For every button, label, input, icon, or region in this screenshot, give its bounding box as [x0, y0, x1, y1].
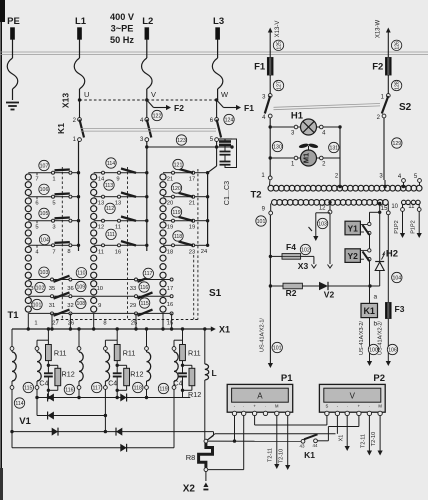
- dashed node line U-V-W: [80, 99, 217, 101]
- ammeter P1: [227, 384, 293, 412]
- node V: [145, 98, 148, 101]
- resistor R2: [269, 284, 272, 287]
- svg-text:106: 106: [40, 187, 49, 193]
- diode V1-5: [116, 428, 122, 436]
- svg-text:110: 110: [77, 271, 85, 277]
- svg-text:V: V: [151, 90, 156, 99]
- svg-text:27: 27: [52, 321, 58, 327]
- connector X3: [301, 255, 314, 257]
- svg-text:3: 3: [52, 225, 55, 231]
- svg-text:C4: C4: [174, 381, 183, 388]
- valve connector Y2: [345, 249, 360, 263]
- svg-text:F2: F2: [372, 62, 383, 73]
- svg-text:104: 104: [40, 237, 49, 243]
- svg-text:Y2: Y2: [347, 251, 358, 261]
- fuse F4: [269, 255, 272, 258]
- wire from T2-12 to X3: [329, 214, 331, 264]
- svg-text:101: 101: [257, 219, 266, 225]
- svg-text:12: 12: [98, 225, 104, 231]
- X1 output bus: [12, 328, 211, 330]
- svg-text:112: 112: [106, 206, 114, 212]
- selector S1 dashed mechanical links: [61, 167, 63, 320]
- svg-text:115: 115: [24, 385, 32, 391]
- K1 auxiliary contact: [301, 439, 305, 443]
- svg-text:31: 31: [49, 303, 55, 309]
- svg-text:F1: F1: [244, 103, 254, 113]
- svg-text:111: 111: [107, 232, 115, 238]
- svg-text:X13-V: X13-V: [275, 21, 281, 38]
- secondary winding w4: [104, 340, 106, 346]
- svg-text:X1: X1: [339, 435, 345, 442]
- svg-text:16: 16: [167, 302, 173, 308]
- svg-text:120: 120: [172, 186, 181, 192]
- svg-text:106: 106: [388, 347, 397, 353]
- T2 terminal 9: [270, 204, 272, 212]
- K1 output buses: [78, 142, 80, 252]
- T2 terminals 10 11: [402, 204, 404, 208]
- svg-text:108: 108: [76, 301, 85, 307]
- snubber group3: [182, 329, 184, 345]
- svg-text:L3: L3: [213, 16, 224, 27]
- voltmeter P2: [319, 384, 385, 412]
- svg-text:50 Hz: 50 Hz: [110, 35, 134, 45]
- S1 lower link contacts g2-g3: [94, 279, 135, 281]
- svg-text:L1: L1: [75, 16, 87, 27]
- svg-text:X1: X1: [219, 325, 230, 335]
- S2 mechanical link: [274, 104, 381, 108]
- gray panel boundary line: [0, 51, 428, 53]
- svg-text:43: 43: [299, 444, 305, 449]
- svg-text:29: 29: [130, 303, 136, 309]
- svg-text:116: 116: [65, 387, 73, 393]
- svg-text:C1...C3: C1...C3: [222, 181, 231, 205]
- svg-text:R12: R12: [130, 370, 143, 379]
- S1 group1 tap contacts: [28, 172, 51, 174]
- svg-text:P1: P1: [281, 373, 293, 384]
- V1 row1 wire: [37, 397, 190, 399]
- svg-text:116: 116: [140, 285, 148, 291]
- svg-text:1: 1: [52, 177, 55, 183]
- group3 mini bus: [207, 173, 209, 246]
- wire contact5 down: [216, 142, 218, 167]
- svg-text:18: 18: [167, 249, 173, 255]
- T2 terminal 12: [328, 201, 331, 204]
- diode V1-3: [48, 412, 54, 420]
- svg-text:·: ·: [346, 403, 347, 408]
- svg-text:US-41A/X3-2/: US-41A/X3-2/: [359, 321, 365, 355]
- svg-text:126: 126: [394, 41, 400, 50]
- T2 terminal 15: [378, 202, 381, 205]
- svg-text:P1P2: P1P2: [411, 220, 417, 233]
- svg-text:T2-10: T2-10: [279, 449, 285, 463]
- svg-text:PE: PE: [7, 16, 20, 27]
- svg-text:129: 129: [392, 141, 401, 147]
- svg-text:S2: S2: [399, 102, 412, 113]
- svg-text:122: 122: [153, 113, 162, 119]
- svg-text:M: M: [378, 403, 382, 408]
- T2 primary taps 4 5: [402, 179, 406, 183]
- svg-text:20: 20: [167, 201, 173, 207]
- svg-text:K1: K1: [304, 450, 315, 460]
- svg-text:X2: X2: [183, 484, 196, 495]
- svg-text:119: 119: [172, 210, 180, 216]
- svg-text:117: 117: [144, 271, 152, 277]
- svg-text:US-41A/X2-1/: US-41A/X2-1/: [260, 318, 266, 352]
- svg-text:a: a: [374, 294, 378, 301]
- svg-text:7: 7: [52, 249, 55, 255]
- svg-text:S: S: [326, 403, 329, 408]
- diode V1-2: [120, 394, 126, 402]
- svg-text:X3: X3: [298, 261, 309, 271]
- svg-text:T2: T2: [250, 190, 261, 201]
- svg-text:F4: F4: [286, 242, 296, 252]
- svg-text:130: 130: [273, 144, 282, 150]
- svg-text:L2: L2: [142, 16, 153, 27]
- svg-text:109: 109: [76, 284, 85, 290]
- valve connector Y1: [345, 221, 360, 235]
- T1 bottom connections to X1 bus: [27, 313, 29, 329]
- svg-text:L: L: [212, 368, 217, 378]
- svg-text:35: 35: [49, 286, 55, 292]
- svg-text:V: V: [350, 392, 356, 401]
- svg-text:36: 36: [67, 286, 73, 292]
- diode V1-4: [52, 428, 58, 436]
- svg-text:V2: V2: [324, 290, 335, 300]
- svg-text:H1: H1: [291, 111, 304, 122]
- svg-text:19: 19: [167, 225, 173, 231]
- svg-text:5: 5: [52, 201, 55, 207]
- svg-text:17: 17: [189, 177, 195, 183]
- svg-text:117: 117: [93, 385, 101, 391]
- V1 row4 wire: [12, 447, 174, 449]
- svg-text:13: 13: [115, 201, 121, 207]
- svg-text:23: 23: [189, 249, 195, 255]
- svg-text:105: 105: [40, 211, 49, 217]
- svg-text:16: 16: [115, 249, 121, 255]
- svg-text:118: 118: [134, 385, 142, 391]
- svg-text:12: 12: [319, 206, 326, 212]
- transformer T1 windings: [25, 174, 31, 180]
- svg-text:X13: X13: [61, 93, 71, 108]
- svg-text:M: M: [275, 403, 279, 408]
- svg-text:14: 14: [98, 177, 105, 183]
- svg-text:25: 25: [131, 321, 137, 327]
- svg-text:17: 17: [167, 286, 173, 292]
- S1 group3 tap contacts: [163, 172, 172, 174]
- svg-text:H2: H2: [386, 249, 398, 260]
- ground symbol: [6, 102, 19, 104]
- S1 group2 tap contacts: [94, 172, 102, 174]
- svg-text:9: 9: [98, 303, 101, 309]
- svg-text:1: 1: [34, 321, 37, 327]
- svg-text:115: 115: [140, 301, 148, 307]
- svg-text:A: A: [257, 392, 263, 401]
- svg-text:101: 101: [33, 302, 42, 308]
- secondary winding w2: [36, 340, 38, 346]
- wire ref 122: [152, 110, 162, 120]
- svg-text:32: 32: [67, 303, 73, 309]
- snubber group2: [116, 329, 118, 345]
- svg-text:3~PE: 3~PE: [111, 24, 134, 34]
- wire refs group3: [173, 159, 183, 169]
- T2 primary winding: [268, 185, 274, 191]
- svg-text:R2: R2: [286, 288, 297, 298]
- secondary winding w1: [11, 329, 13, 347]
- fuse F1 branch to X13-V: [268, 28, 273, 33]
- svg-text:11: 11: [98, 249, 104, 255]
- V1 row3 wire: [12, 431, 214, 433]
- svg-text:21: 21: [167, 177, 173, 183]
- diode V1-1: [48, 394, 54, 402]
- control rail from terminal 9: [269, 215, 271, 363]
- diode V1-6: [120, 444, 126, 452]
- svg-text:F2: F2: [174, 103, 184, 113]
- svg-text:R11: R11: [188, 349, 201, 358]
- svg-text:107: 107: [40, 163, 49, 169]
- svg-text:X13-W: X13-W: [375, 19, 381, 38]
- svg-text:103: 103: [318, 221, 327, 227]
- svg-text:114: 114: [107, 161, 115, 167]
- svg-text:K1: K1: [363, 306, 375, 316]
- svg-text:8: 8: [103, 321, 106, 327]
- relay coil K1: [369, 286, 371, 303]
- svg-text:9: 9: [116, 177, 119, 183]
- wire refs group2: [106, 158, 116, 168]
- svg-text:15: 15: [167, 321, 173, 327]
- T2 secondary winding 2: [402, 200, 406, 204]
- P2 X1 arrow: [346, 416, 348, 446]
- svg-text:44: 44: [312, 443, 318, 448]
- svg-text:R8: R8: [186, 453, 196, 462]
- svg-text:P1P2: P1P2: [394, 220, 400, 233]
- svg-text:M1: M1: [302, 153, 311, 163]
- wire 123 link: [147, 146, 232, 148]
- snubber R11 C4 R12 group1: [47, 329, 49, 345]
- K1 mechanical link: [81, 128, 217, 130]
- svg-text:125: 125: [276, 41, 282, 50]
- fan motor M1: [298, 143, 309, 149]
- svg-text:102: 102: [301, 247, 310, 253]
- svg-text:C4: C4: [39, 381, 48, 388]
- svg-text:T2-11: T2-11: [268, 448, 274, 462]
- svg-text:118: 118: [174, 234, 182, 240]
- wire 103 branch arrow: [316, 212, 330, 214]
- svg-text:T2-11: T2-11: [361, 434, 367, 448]
- svg-text:104: 104: [392, 275, 401, 281]
- secondary winding w5: [145, 327, 148, 330]
- wire M1 right down: [339, 127, 341, 180]
- node W: [215, 98, 218, 101]
- svg-text:19: 19: [189, 225, 195, 231]
- T2 secondary winding 1: [272, 200, 278, 206]
- svg-text:P2: P2: [373, 373, 385, 384]
- svg-text:101: 101: [273, 345, 282, 351]
- svg-text:400 V: 400 V: [110, 12, 135, 22]
- Y contact rail: [369, 212, 371, 222]
- svg-text:11: 11: [408, 204, 415, 210]
- svg-text:U: U: [84, 90, 89, 99]
- svg-text:21: 21: [189, 201, 195, 207]
- wire to P1P2 left: [402, 211, 404, 233]
- shunt R8: [213, 432, 215, 436]
- svg-text:US-41A/X2-2/: US-41A/X2-2/: [378, 321, 384, 355]
- svg-text:13: 13: [98, 201, 104, 207]
- svg-text:R11: R11: [123, 349, 136, 358]
- svg-text:T1: T1: [7, 310, 19, 321]
- svg-text:V1: V1: [19, 416, 31, 427]
- wire ref 124: [224, 114, 234, 124]
- P2 wiring: [336, 416, 338, 434]
- wire S2 right pole down: [383, 118, 385, 180]
- filter inductor L: [204, 329, 206, 364]
- P1 arrows T2-11 T2-10: [276, 416, 278, 464]
- svg-text:R11: R11: [54, 349, 67, 358]
- svg-text:121: 121: [174, 162, 183, 168]
- fuse F3: [387, 215, 389, 303]
- P2 arrows T2-11 T2-10: [368, 416, 370, 451]
- wire refs lower g1: [39, 267, 49, 277]
- shunt sense wires: [206, 440, 235, 442]
- svg-text:5: 5: [35, 225, 38, 231]
- svg-text:128: 128: [394, 81, 400, 90]
- svg-text:10: 10: [97, 286, 103, 292]
- wire refs secondary: [23, 382, 33, 392]
- svg-text:24: 24: [201, 249, 208, 255]
- node U: [78, 98, 81, 101]
- wire to F1 arrow: [217, 100, 224, 108]
- svg-text:10: 10: [391, 204, 398, 210]
- secondary winding w6: [173, 340, 175, 346]
- P1 wiring: [234, 416, 236, 442]
- svg-text:114: 114: [15, 401, 23, 407]
- svg-text:·: ·: [265, 403, 266, 408]
- svg-text:102: 102: [36, 285, 45, 291]
- svg-text:·: ·: [243, 403, 244, 408]
- V1 row2 wire: [37, 415, 105, 417]
- svg-text:33: 33: [130, 286, 136, 292]
- svg-text:Y1: Y1: [347, 224, 358, 234]
- svg-text:F3: F3: [395, 304, 405, 314]
- svg-text:K1: K1: [56, 123, 66, 134]
- wire to P1P2 right: [418, 211, 420, 233]
- secondary winding w3: [77, 327, 80, 330]
- svg-text:·: ·: [369, 403, 370, 408]
- svg-text:103: 103: [40, 270, 49, 276]
- wire to F2 arrow: [147, 100, 154, 108]
- svg-text:6: 6: [35, 201, 38, 207]
- fuse F2 branch to X13-W: [386, 28, 391, 33]
- terminal X2: [205, 472, 207, 482]
- svg-text:W: W: [221, 90, 229, 99]
- wire refs group1: [39, 160, 49, 170]
- capacitors C1..C3: [230, 145, 233, 148]
- svg-text:124: 124: [225, 117, 234, 123]
- svg-text:8: 8: [67, 249, 70, 255]
- svg-text:7: 7: [35, 177, 38, 183]
- page edge border: [0, 0, 2, 500]
- svg-text:113: 113: [105, 183, 113, 189]
- svg-text:11: 11: [115, 225, 121, 231]
- svg-text:131: 131: [329, 145, 338, 151]
- diode V2: [302, 285, 319, 287]
- svg-text:127: 127: [276, 81, 282, 90]
- svg-text:26: 26: [68, 321, 74, 327]
- svg-text:3: 3: [30, 286, 33, 292]
- svg-text:S1: S1: [209, 288, 222, 299]
- wire S2 left pole down: [269, 118, 271, 176]
- svg-text:F1: F1: [254, 62, 266, 73]
- T2 winding end to F3: [387, 204, 389, 211]
- svg-text:123: 123: [177, 138, 186, 144]
- svg-text:119: 119: [159, 386, 167, 392]
- svg-text:C4: C4: [108, 381, 117, 388]
- svg-text:T2-10: T2-10: [371, 432, 377, 446]
- S1 lower link contacts g1-g2: [28, 279, 50, 281]
- svg-text:R12: R12: [62, 370, 75, 379]
